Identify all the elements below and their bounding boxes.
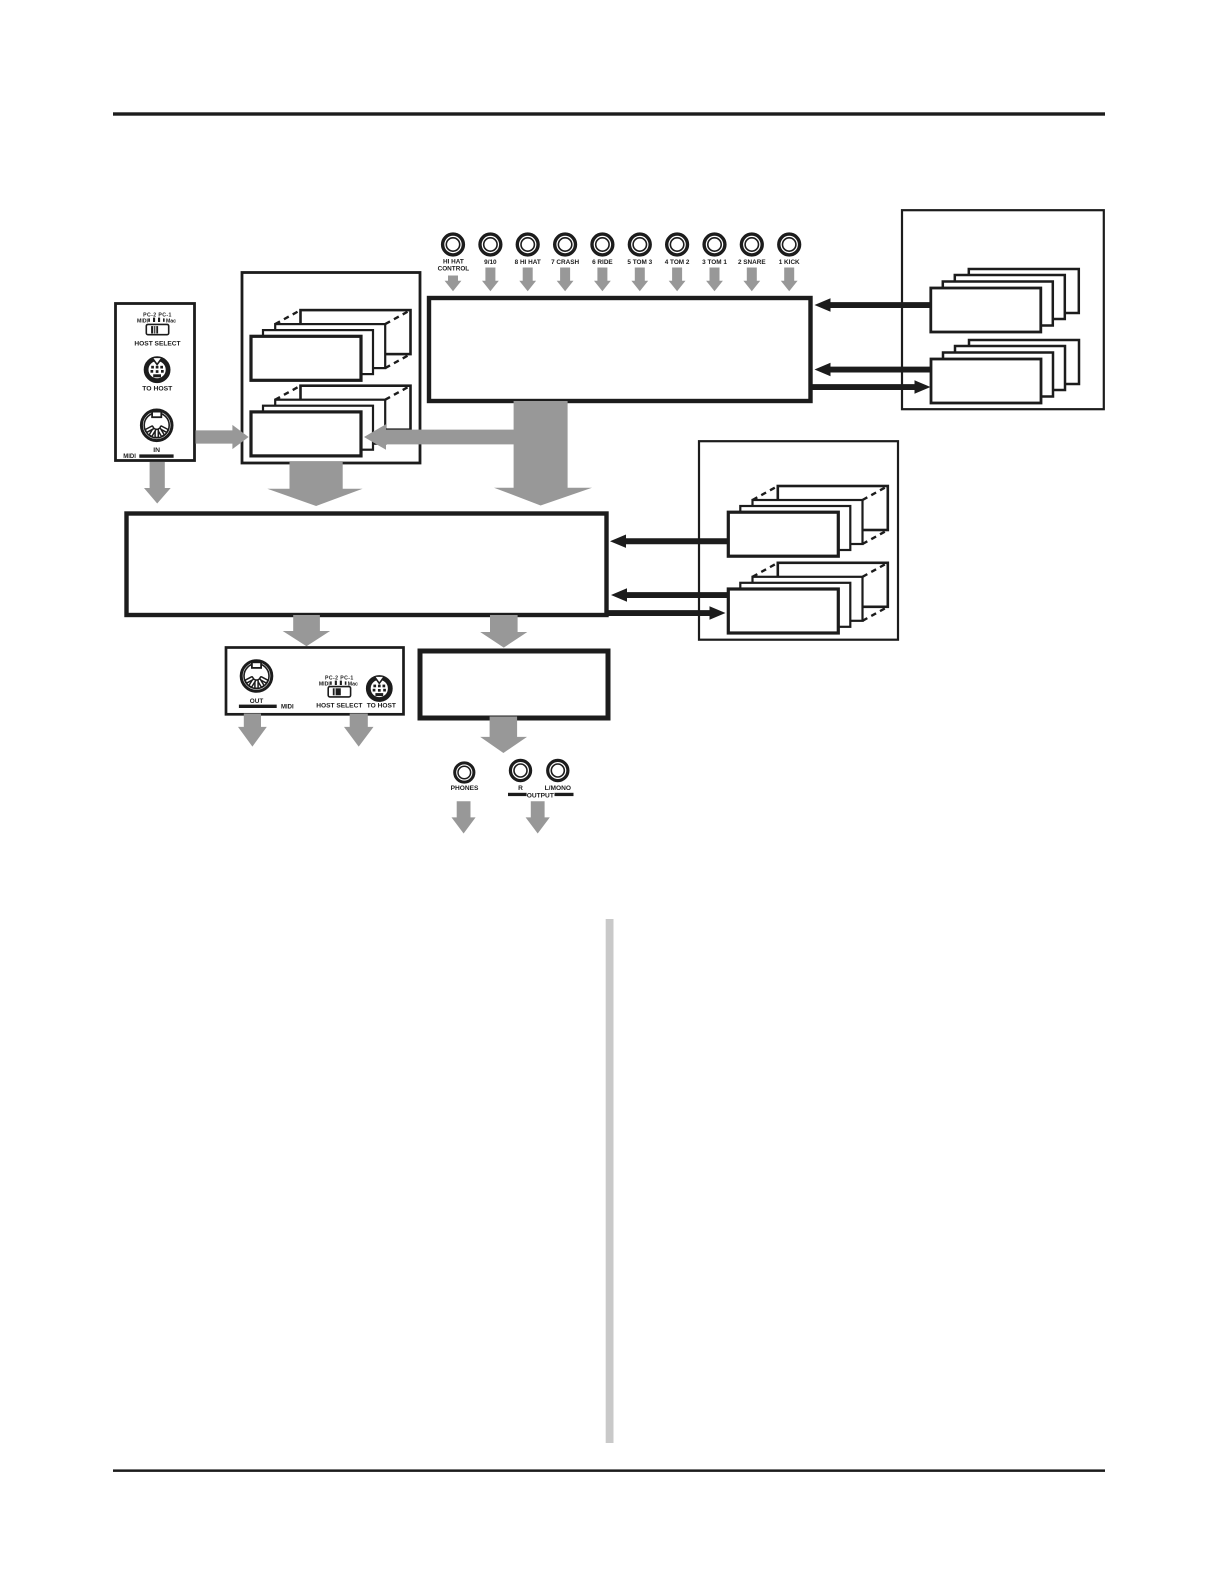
L/MONO output jack <box>548 760 568 780</box>
svg-text:OUT: OUT <box>250 698 264 705</box>
svg-text:CONTROL: CONTROL <box>438 265 470 272</box>
MIDI OUT DIN-5 <box>241 661 272 692</box>
svg-text:7 CRASH: 7 CRASH <box>551 259 579 266</box>
svg-text:TO HOST: TO HOST <box>142 386 173 393</box>
jack labels <box>438 258 800 272</box>
svg-text:HI HAT: HI HAT <box>443 258 464 265</box>
stack B1 <box>251 310 411 380</box>
gray arrow panel to box B <box>196 425 249 449</box>
trigger jack HI HAT CONTROL <box>443 234 464 255</box>
svg-text:9/10: 9/10 <box>484 259 497 266</box>
main processor box D <box>127 514 607 616</box>
gray arrow box G down to output jacks <box>480 717 527 754</box>
left MIDI IN panel <box>116 304 195 461</box>
host select switch <box>146 324 168 334</box>
trigger jack 4 TOM 2 <box>667 234 688 255</box>
stack C2 <box>931 340 1079 403</box>
svg-text:MIDI: MIDI <box>137 319 149 325</box>
MIDI OUT panel F <box>226 648 404 715</box>
stack E1 <box>728 486 888 556</box>
svg-text:R: R <box>518 785 523 792</box>
black arrow C2 to box A <box>815 363 931 376</box>
svg-text:HOST SELECT: HOST SELECT <box>134 340 180 347</box>
svg-text:8 HI HAT: 8 HI HAT <box>515 259 541 266</box>
TO HOST mini-DIN <box>146 358 168 381</box>
trigger jack 9/10 <box>480 234 501 255</box>
svg-text:1 KICK: 1 KICK <box>779 259 800 266</box>
black arrow box A to C2 <box>811 380 931 393</box>
svg-text:OUTPUT: OUTPUT <box>527 792 554 799</box>
vertical divider <box>606 919 614 1443</box>
trigger jack 5 TOM 3 <box>629 234 650 255</box>
box B pattern memory <box>242 273 420 464</box>
svg-text:HOST SELECT: HOST SELECT <box>316 703 362 710</box>
box C right upper stacks <box>902 210 1104 409</box>
trigger jack 3 TOM 1 <box>704 234 725 255</box>
gray arrow box D down to panel F <box>283 615 330 646</box>
gray arrow phones down <box>452 801 476 833</box>
gray arrow output down <box>526 801 550 833</box>
wide gray arrow box B down to box D <box>267 462 362 506</box>
PHONES jack <box>455 763 474 782</box>
black arrow C1 to box A <box>815 298 931 311</box>
wide gray arrow box A down to box D <box>494 401 592 506</box>
gray arrow left panel down to box D <box>144 462 171 504</box>
MIDI IN DIN-5 <box>141 410 172 441</box>
black arrow E2 to box D <box>611 588 728 601</box>
svg-text:4 TOM 2: 4 TOM 2 <box>665 259 690 266</box>
svg-text:5 TOM 3: 5 TOM 3 <box>627 259 652 266</box>
svg-text:MIDI: MIDI <box>123 454 136 460</box>
trigger jack 1 KICK <box>779 234 800 255</box>
TO HOST mini-DIN (panel F) <box>368 677 390 700</box>
black arrow box D to E2 <box>607 606 726 619</box>
stack E2 <box>728 563 888 633</box>
box E lower right stacks <box>699 441 898 640</box>
svg-text:6 RIDE: 6 RIDE <box>592 259 613 266</box>
stack B2 <box>251 386 411 456</box>
gray arrow box A branch to box B <box>364 424 520 450</box>
output box G <box>420 651 608 718</box>
svg-text:IN: IN <box>153 447 160 454</box>
trigger jack 2 SNARE <box>741 234 762 255</box>
gray arrow panel F down right <box>344 714 374 747</box>
svg-text:PHONES: PHONES <box>451 785 479 792</box>
trigger jack 7 CRASH <box>555 234 576 255</box>
svg-text:TO HOST: TO HOST <box>367 703 396 710</box>
svg-text:2 SNARE: 2 SNARE <box>738 259 766 266</box>
trigger jack 6 RIDE <box>592 234 613 255</box>
trigger jack 8 HI HAT <box>517 234 538 255</box>
black arrow E1 to box D <box>610 535 728 548</box>
svg-text:L/MONO: L/MONO <box>545 785 571 792</box>
svg-text:MIDI: MIDI <box>281 705 294 711</box>
gray arrow box D down to box G <box>480 615 527 648</box>
stack C1 <box>931 269 1079 332</box>
svg-text:3 TOM 1: 3 TOM 1 <box>702 259 727 266</box>
page bottom rule <box>113 1469 1105 1472</box>
R output jack <box>510 760 530 780</box>
small gray arrows from jacks into trigger box <box>445 268 798 292</box>
gray arrow panel F down left <box>238 714 267 747</box>
page top rule <box>113 112 1105 115</box>
trigger input box A <box>429 298 811 401</box>
